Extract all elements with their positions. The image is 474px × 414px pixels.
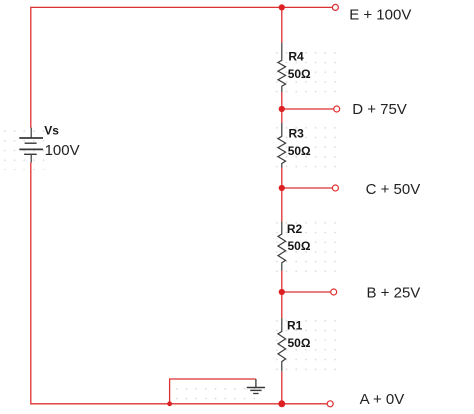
svg-text:50Ω: 50Ω <box>288 144 311 158</box>
svg-text:R4: R4 <box>288 49 304 63</box>
svg-text:E + 100V: E + 100V <box>349 7 411 24</box>
svg-text:C + 50V: C + 50V <box>366 181 421 198</box>
svg-text:A + 0V: A + 0V <box>360 391 405 408</box>
svg-text:50Ω: 50Ω <box>288 239 311 253</box>
svg-text:50Ω: 50Ω <box>288 336 311 350</box>
svg-text:R3: R3 <box>289 127 305 141</box>
svg-text:50Ω: 50Ω <box>288 67 311 81</box>
svg-text:Vs: Vs <box>44 123 59 137</box>
svg-text:D + 75V: D + 75V <box>352 101 407 118</box>
svg-text:100V: 100V <box>45 142 80 159</box>
svg-text:B + 25V: B + 25V <box>367 285 421 302</box>
svg-text:R1: R1 <box>287 319 303 333</box>
svg-text:R2: R2 <box>287 222 303 236</box>
